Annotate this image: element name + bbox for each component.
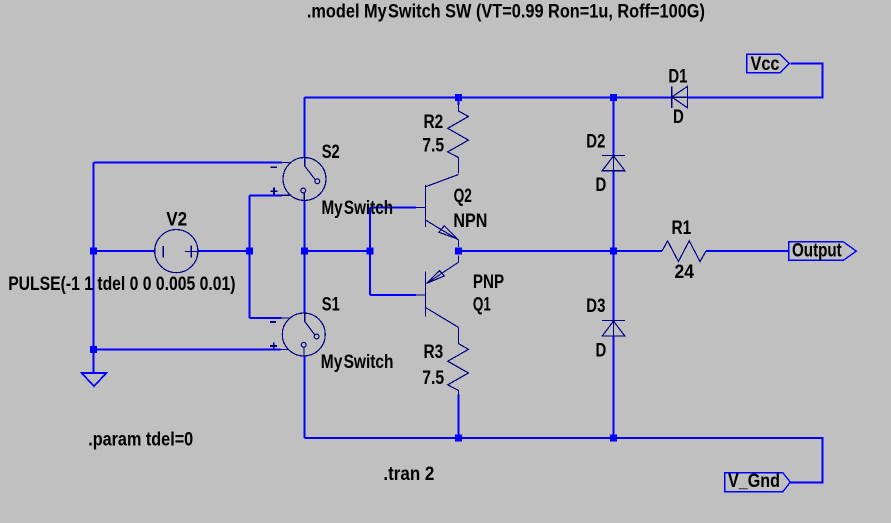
svg-text:Q2: Q2 [454, 185, 472, 207]
svg-text:D1: D1 [668, 66, 687, 88]
svg-text:My Switch: My Switch [321, 351, 394, 373]
svg-text:D3: D3 [586, 295, 605, 317]
svg-text:D2: D2 [586, 130, 605, 152]
svg-text:R3: R3 [424, 341, 444, 363]
svg-text:7.5: 7.5 [422, 135, 444, 157]
svg-text:S1: S1 [322, 293, 340, 315]
svg-text:.model My Switch SW (VT=0.99 R: .model My Switch SW (VT=0.99 Ron=1u, Rof… [307, 1, 705, 23]
svg-text:.tran 2: .tran 2 [383, 463, 434, 485]
svg-text:D: D [596, 174, 607, 196]
svg-text:D: D [596, 340, 607, 362]
svg-text:R1: R1 [672, 217, 692, 239]
svg-text:Output: Output [792, 240, 842, 262]
svg-text:PULSE(-1 1 tdel 0 0 0.005 0.01: PULSE(-1 1 tdel 0 0 0.005 0.01) [8, 273, 235, 295]
svg-text:D: D [673, 106, 684, 128]
svg-text:Vcc: Vcc [751, 53, 780, 75]
svg-text:PNP: PNP [473, 271, 504, 293]
svg-text:R2: R2 [424, 111, 444, 133]
svg-text:V2: V2 [166, 208, 187, 230]
svg-text:Q1: Q1 [473, 293, 491, 315]
svg-text:NPN: NPN [453, 210, 487, 232]
svg-text:.param tdel=0: .param tdel=0 [88, 428, 193, 450]
svg-text:24: 24 [675, 261, 695, 283]
svg-text:7.5: 7.5 [422, 367, 444, 389]
svg-text:My Switch: My Switch [322, 197, 394, 219]
svg-text:V_Gnd: V_Gnd [728, 470, 780, 492]
svg-text:S2: S2 [322, 141, 340, 163]
